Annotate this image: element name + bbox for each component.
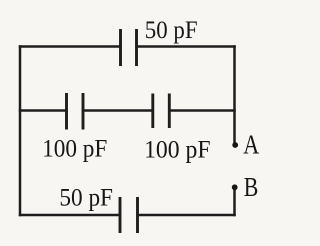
svg-text:100 pF: 100 pF	[144, 136, 210, 164]
svg-text:50 pF: 50 pF	[59, 184, 113, 212]
svg-text:A: A	[243, 130, 259, 160]
svg-text:100 pF: 100 pF	[42, 135, 107, 163]
svg-text:50 pF: 50 pF	[145, 17, 198, 44]
svg-text:B: B	[244, 173, 259, 203]
